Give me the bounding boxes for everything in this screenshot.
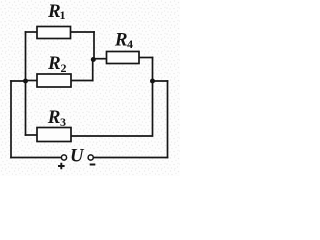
wire R1 right lead [71, 31, 95, 33]
svg-text:2: 2 [61, 61, 67, 75]
wire R1 left lead [26, 31, 38, 33]
resistor R4 [107, 52, 140, 64]
wire R2 right lead [71, 80, 93, 82]
wire R3 left lead [26, 134, 38, 136]
resistor R1 [37, 27, 71, 39]
wire left branch vertical down [10, 81, 12, 158]
svg-text:3: 3 [60, 115, 66, 129]
svg-text:R: R [47, 53, 61, 74]
label R1 [47, 1, 66, 22]
label R3 [47, 107, 66, 129]
wire node B to R4 left lead [94, 58, 107, 60]
wire left main vertical [25, 32, 27, 135]
resistor R3 [37, 128, 71, 142]
plus sign [58, 163, 65, 170]
svg-text:R: R [47, 107, 61, 128]
battery terminal + circle [61, 155, 66, 160]
battery terminal - circle [88, 155, 93, 160]
node C junction dot [150, 79, 155, 84]
resistor R2 [37, 74, 71, 87]
wire node C to outer right [153, 80, 168, 82]
wire mid vertical upper (R1 to node B) [93, 32, 95, 59]
wire battery right segment [93, 157, 167, 159]
svg-text:U: U [70, 146, 85, 167]
wire node A to R2 left lead [26, 80, 38, 82]
wire outer right vertical [167, 81, 169, 158]
wire node C down to R3 branch [71, 81, 153, 136]
wire battery left segment [11, 157, 61, 159]
node A junction dot [23, 79, 28, 84]
node B junction dot [91, 57, 96, 62]
wire mid vertical lower (R2 up to node B) [92, 59, 94, 81]
svg-text:4: 4 [127, 37, 133, 51]
wire right vertical down to node C [152, 58, 154, 82]
minus sign [90, 164, 96, 166]
svg-text:R: R [114, 30, 128, 51]
wire node A left branch horizontal [11, 80, 26, 82]
label R4 [114, 30, 133, 52]
wire R4 right lead [139, 57, 153, 59]
svg-text:1: 1 [60, 8, 66, 22]
label R2 [47, 53, 67, 75]
